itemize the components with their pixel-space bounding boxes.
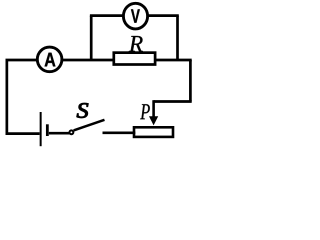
resistor R label [129,36,143,52]
switch S label [77,103,88,118]
switch S blade [74,120,105,131]
rheostat P label [140,104,150,119]
resistor R body [114,53,155,65]
voltmeter U2 circle [123,3,147,29]
voltmeter U2 label V [131,9,140,22]
wire horizontal to slider arm [154,100,192,103]
battery B1 long plate [40,112,42,146]
rheostat slider arrow stem [152,100,155,117]
wire right vertical down [189,60,192,102]
wire switch to rheostat [103,132,136,135]
node junction with voltmeter branch [90,16,93,60]
rheostat P body [134,127,173,137]
wire ammeter to resistor [62,59,114,62]
wire bottom-left to battery [6,132,40,135]
wire resistor right to corner [156,59,192,62]
ammeter U1 label A [45,53,56,67]
rheostat slider arrowhead [149,116,158,125]
wire top-left horizontal to ammeter [6,59,39,62]
wire voltmeter top-right horizontal [147,14,179,17]
switch S pivot circle [69,130,73,134]
wire battery to switch [49,132,70,135]
wire left vertical [5,60,8,134]
ammeter U1 circle [37,47,62,72]
wire voltmeter top-left horizontal [90,14,124,17]
battery B1 short plate [46,124,49,136]
wire voltmeter branch right vertical [176,16,179,60]
